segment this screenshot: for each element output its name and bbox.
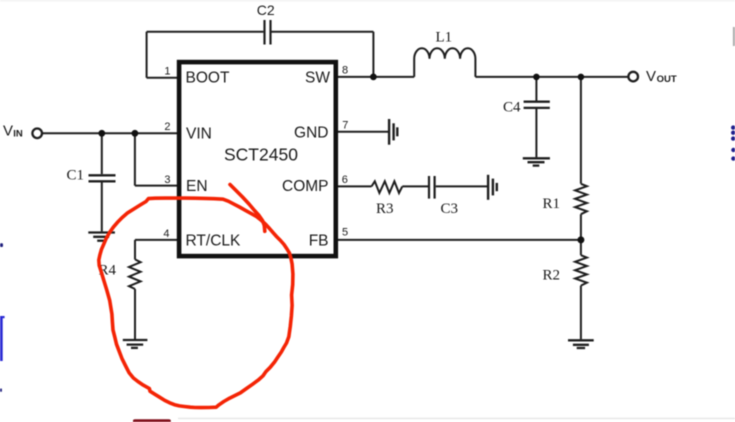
navy dash at left edge (0, 243, 3, 247)
red annotation circle around RT/CLK and R4 (99, 185, 293, 408)
svg-text:EN: EN (186, 178, 208, 195)
faint bottom separator line (178, 418, 735, 419)
wire SW to L1 and L1 to VOUT (337, 76, 628, 78)
svg-text:R1: R1 (543, 196, 561, 212)
wire C4 to ground (535, 109, 537, 157)
wire pin7 GND stub (337, 131, 388, 133)
svg-text:COMP: COMP (282, 178, 329, 195)
wire C2 top left segment (147, 31, 264, 33)
svg-text:OUT: OUT (657, 74, 677, 85)
grey dash at right edge (733, 27, 735, 46)
wire EN branch vertical (134, 133, 136, 185)
svg-text:FB: FB (309, 233, 329, 250)
wire R1 branch vertical upper (580, 77, 582, 184)
ground for R4 (123, 340, 148, 348)
wire pin3 EN stub (135, 185, 178, 187)
op-amp/IC U1 SCT2450 body (179, 62, 336, 256)
wire C4 branch vertical (535, 77, 537, 101)
red annotation pen tail stroke (230, 185, 265, 232)
wire R4 to ground (134, 289, 136, 340)
ground for C4 (523, 158, 550, 165)
svg-text:R3: R3 (376, 201, 394, 217)
wire pin4 RT/CLK stub (135, 239, 178, 241)
svg-text:C4: C4 (503, 99, 521, 115)
wire R3 to C3 (402, 185, 428, 187)
svg-text:8: 8 (342, 64, 348, 76)
maroon bar at bottom edge (133, 419, 171, 422)
terminal VOUT circle (628, 72, 638, 82)
capacitor C3 (429, 176, 435, 199)
svg-text:L1: L1 (436, 29, 453, 45)
junction at FB node (577, 236, 584, 243)
wire R1 to FB node (580, 214, 582, 240)
capacitor C4 (524, 102, 550, 108)
wire FB node to R2 (580, 240, 582, 255)
svg-text:4: 4 (163, 228, 169, 240)
wire C2 loop right vertical (372, 32, 374, 77)
svg-text:SCT2450: SCT2450 (224, 145, 298, 165)
svg-text:5: 5 (342, 227, 348, 239)
wire C2 top right segment (271, 31, 373, 33)
resistor R2 (575, 255, 587, 285)
svg-text:GND: GND (294, 124, 328, 141)
svg-text:7: 7 (342, 120, 348, 132)
blue text fragments at right edge (731, 125, 735, 160)
junction at C1 branch (98, 130, 105, 137)
svg-text:IN: IN (13, 129, 23, 140)
junction at EN branch (132, 130, 139, 137)
capacitor C1 (89, 175, 116, 181)
ground symbol after C3 (488, 175, 497, 200)
wire C2 loop left vertical (146, 32, 148, 78)
wire pin6 COMP stub (337, 185, 372, 187)
navy dot at left edge lower (0, 389, 2, 392)
svg-text:1: 1 (164, 65, 170, 77)
ground for C1 (88, 233, 115, 241)
resistor R4 (129, 259, 141, 289)
junction at SW/C2 (370, 74, 377, 81)
terminal VIN circle (32, 129, 42, 139)
wire RT/CLK down to R4 (134, 240, 136, 260)
inductor L1 (414, 48, 475, 77)
svg-text:V: V (646, 68, 656, 85)
junction at C4 branch (533, 74, 540, 81)
svg-text:3: 3 (164, 174, 170, 186)
wire C1 to ground (101, 182, 103, 231)
svg-text:C3: C3 (441, 201, 459, 217)
svg-text:2: 2 (164, 121, 170, 133)
wire VIN to pin2 (43, 132, 178, 134)
svg-text:C2: C2 (257, 2, 275, 18)
ground symbol at GND pin (389, 119, 397, 145)
blue vertical line at left edge (0, 316, 3, 361)
wire C3 to ground (436, 185, 487, 187)
wire R2 to ground (580, 286, 582, 340)
wire pin1 BOOT stub (147, 77, 178, 79)
capacitor C2 (265, 20, 271, 45)
wire C1 branch vertical upper (101, 133, 103, 174)
svg-text:R2: R2 (543, 267, 561, 283)
svg-text:C1: C1 (67, 167, 85, 183)
svg-text:BOOT: BOOT (186, 69, 230, 86)
junction at R1 branch (578, 74, 585, 81)
svg-text:SW: SW (305, 69, 330, 86)
resistor R3 (372, 181, 403, 193)
ground for R2 (568, 340, 594, 348)
faint top edge line (0, 0, 735, 1)
svg-text:6: 6 (342, 174, 348, 186)
svg-text:VIN: VIN (186, 126, 212, 143)
svg-text:RT/CLK: RT/CLK (186, 233, 242, 250)
resistor R1 (575, 184, 587, 214)
svg-text:V: V (3, 122, 13, 139)
wire pin5 FB to divider (337, 239, 581, 241)
